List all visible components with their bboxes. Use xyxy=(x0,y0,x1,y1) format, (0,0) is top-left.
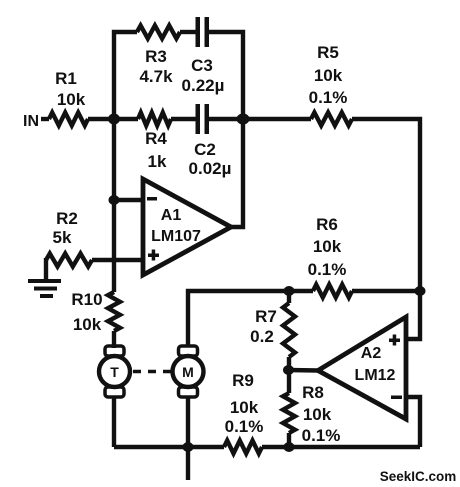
svg-text:4.7k: 4.7k xyxy=(139,67,173,86)
svg-text:R3: R3 xyxy=(145,47,167,66)
wire C2 to node B and on to R5 xyxy=(209,117,311,121)
wire M bottom to bottom rail xyxy=(186,397,190,447)
wire A1 inverting input stub xyxy=(114,198,143,202)
svg-text:10k: 10k xyxy=(57,90,86,109)
svg-text:A1: A1 xyxy=(161,207,182,224)
resistor R1 xyxy=(49,113,88,126)
svg-text:LM12: LM12 xyxy=(355,367,396,384)
resistor R5 xyxy=(311,113,352,126)
svg-text:R8: R8 xyxy=(302,383,324,402)
wire node E to R8 xyxy=(287,370,291,393)
svg-text:0.22µ: 0.22µ xyxy=(182,76,225,95)
svg-text:0.2: 0.2 xyxy=(250,327,274,346)
A1 inverting marker xyxy=(147,197,157,201)
svg-text:A2: A2 xyxy=(361,345,382,362)
wire bottom rail xyxy=(114,445,224,449)
svg-text:R2: R2 xyxy=(56,209,78,228)
wire M top up and right to node D xyxy=(188,291,313,346)
mechanical coupling dashes xyxy=(133,370,172,374)
junction at A1 inverting input xyxy=(109,195,120,205)
svg-text:1k: 1k xyxy=(148,152,167,171)
svg-text:0.02µ: 0.02µ xyxy=(189,159,232,178)
op-amp A1 xyxy=(143,179,231,275)
svg-text:C3: C3 xyxy=(191,56,213,75)
resistor R9 xyxy=(224,441,262,454)
svg-text:0.1%: 0.1% xyxy=(225,417,264,436)
wire A1 output up to node B xyxy=(231,119,243,227)
ground xyxy=(28,279,61,298)
wire stub below bottom rail xyxy=(186,447,190,480)
resistor R2 xyxy=(46,254,92,267)
op-amp A2 xyxy=(318,317,406,419)
svg-text:C2: C2 xyxy=(194,140,216,159)
svg-text:10k: 10k xyxy=(303,405,332,424)
svg-text:10k: 10k xyxy=(230,398,259,417)
node B junction xyxy=(237,114,250,125)
svg-text:R9: R9 xyxy=(232,371,254,390)
svg-text:0.1%: 0.1% xyxy=(309,88,348,107)
resistor R8 xyxy=(283,393,295,433)
resistor R7 xyxy=(283,303,295,357)
resistor R3 xyxy=(137,26,180,39)
A2 non-inverting marker xyxy=(389,335,400,346)
wire C3 to node B xyxy=(209,32,243,119)
svg-text:R1: R1 xyxy=(55,69,77,88)
wire A1 non-inverting input from R2 xyxy=(92,258,143,262)
junction R8 bottom on bottom rail xyxy=(284,442,295,452)
wire T bottom to bottom rail xyxy=(112,397,116,447)
wire R3 to C3 xyxy=(180,30,196,34)
wire node A to R4 xyxy=(114,117,138,121)
wire R1 to node A xyxy=(88,117,114,121)
svg-text:M: M xyxy=(182,364,194,380)
svg-text:0.1%: 0.1% xyxy=(308,260,347,279)
node A junction xyxy=(108,114,120,125)
wire R9 to right bottom corner xyxy=(262,445,420,449)
wire node A down to R10 xyxy=(112,119,116,292)
wire R5 to right rail down to node C xyxy=(352,119,420,291)
wire R6 to node C xyxy=(352,289,420,293)
svg-text:R4: R4 xyxy=(145,129,167,148)
svg-text:10k: 10k xyxy=(73,315,102,334)
wire R8 to bottom rail xyxy=(287,433,291,447)
A1 non-inverting marker xyxy=(148,250,159,261)
wire R2 left end down to ground xyxy=(44,258,48,281)
wire IN lead to node A xyxy=(41,117,49,121)
wire A2 output to node E xyxy=(288,368,318,373)
svg-text:10k: 10k xyxy=(314,66,343,85)
svg-text:LM107: LM107 xyxy=(151,228,201,245)
svg-text:SeekIC.com: SeekIC.com xyxy=(380,469,457,484)
capacitor C3 xyxy=(196,17,210,47)
svg-text:IN: IN xyxy=(23,113,39,130)
node C junction xyxy=(415,286,426,296)
resistor R4 xyxy=(138,113,171,126)
svg-text:R5: R5 xyxy=(317,43,339,62)
motor M xyxy=(173,346,204,397)
svg-text:0.1%: 0.1% xyxy=(302,426,341,445)
svg-text:R10: R10 xyxy=(71,290,102,309)
node E junction xyxy=(283,365,294,375)
A2 inverting marker xyxy=(391,396,402,400)
svg-text:R7: R7 xyxy=(255,307,277,326)
svg-text:10k: 10k xyxy=(313,237,342,256)
wire R7 to node E xyxy=(287,357,291,370)
wire node A up to top feedback branch xyxy=(114,32,137,121)
svg-text:T: T xyxy=(110,364,119,380)
svg-text:5k: 5k xyxy=(53,228,72,247)
wire A2 inverting input down to bottom rail xyxy=(406,397,420,447)
wire node C down to A2 non-inverting input xyxy=(406,291,420,339)
wire R10 to tachometer T xyxy=(112,331,116,348)
tachometer T xyxy=(99,346,130,397)
wire node D to R7 xyxy=(287,291,291,303)
node D junction xyxy=(284,286,295,296)
resistor R10 xyxy=(108,292,120,331)
capacitor C2 xyxy=(196,104,210,134)
resistor R6 xyxy=(313,285,352,298)
junction M bottom on bottom rail xyxy=(183,442,194,452)
svg-text:R6: R6 xyxy=(316,215,338,234)
wire R4 to C2 xyxy=(171,117,196,121)
